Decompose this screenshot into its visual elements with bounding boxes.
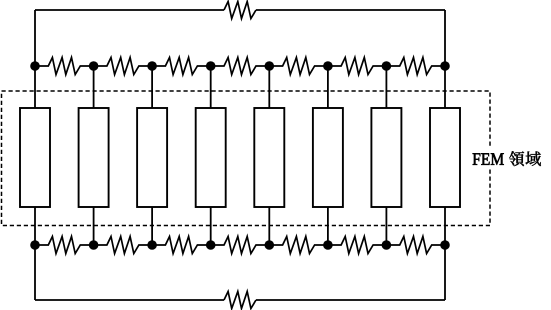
resistor lower row R-b2 (between node B2 and B3) — [94, 237, 153, 254]
wire top-left segment — [35, 9, 224, 11]
node B5 (junction dot, lower bus) — [265, 240, 275, 250]
resistor upper row R-a7 (between node A7 and A8) — [386, 58, 445, 75]
node A1 (junction dot, upper bus) — [30, 61, 40, 71]
wire element E7 down to node B7 — [385, 207, 387, 245]
node B1 (junction dot, lower bus) — [30, 240, 40, 250]
resistor upper row R-a6 (between node A6 and A7) — [328, 58, 387, 75]
FEM element (vertical resistor box) E3 — [137, 108, 167, 207]
node A6 (junction dot, upper bus) — [323, 61, 333, 71]
FEM region boundary (dashed box) — [2, 91, 491, 226]
wire bottom-right segment — [256, 299, 445, 301]
resistor upper row R-a4 (between node A4 and A5) — [211, 58, 270, 75]
wire node A6 down into FEM region — [327, 66, 329, 108]
wire element E3 down to node B3 — [151, 207, 153, 245]
node B6 (junction dot, lower bus) — [323, 240, 333, 250]
wire element E1 down to node B1 — [34, 207, 36, 245]
FEM element (vertical resistor box) E7 — [371, 108, 401, 207]
resistor upper row R-a3 (between node A3 and A4) — [152, 58, 211, 75]
node A5 (junction dot, upper bus) — [265, 61, 275, 71]
wire element E4 down to node B4 — [210, 207, 212, 245]
FEM element (vertical resistor box) E4 — [196, 108, 226, 207]
resistor upper row R-a2 (between node A2 and A3) — [94, 58, 153, 75]
resistor R-top (series resistor on top bus) — [224, 2, 256, 19]
node B3 (junction dot, lower bus) — [147, 240, 157, 250]
wire element E5 down to node B5 — [268, 207, 270, 245]
wire right drop from node B8 to bottom bus — [444, 245, 446, 300]
node A4 (junction dot, upper bus) — [206, 61, 216, 71]
wire top-right segment — [256, 9, 445, 11]
wire node A2 down into FEM region — [93, 66, 95, 108]
node B4 (junction dot, lower bus) — [206, 240, 216, 250]
label "FEM 領域" (FEM region) — [469, 147, 544, 169]
resistor lower row R-b5 (between node B5 and B6) — [269, 237, 328, 254]
FEM element (vertical resistor box) E5 — [254, 108, 284, 207]
wire element E8 down to node B8 — [444, 207, 446, 245]
node A2 (junction dot, upper bus) — [89, 61, 99, 71]
wire right riser from top bus to node A8 — [444, 10, 446, 66]
resistor R-bottom (series resistor on bottom bus) — [224, 292, 256, 309]
resistor lower row R-b7 (between node B7 and B8) — [386, 237, 445, 254]
wire bottom-left segment — [35, 299, 224, 301]
wire left riser from top bus to node A1 — [34, 10, 36, 66]
resistor lower row R-b3 (between node B3 and B4) — [152, 237, 211, 254]
resistor lower row R-b6 (between node B6 and B7) — [328, 237, 387, 254]
wire node A8 down into FEM region — [444, 66, 446, 108]
node B2 (junction dot, lower bus) — [89, 240, 99, 250]
node B7 (junction dot, lower bus) — [382, 240, 392, 250]
wire node A1 down into FEM region — [34, 66, 36, 108]
FEM element (vertical resistor box) E6 — [313, 108, 343, 207]
node A8 (junction dot, upper bus) — [440, 61, 450, 71]
wire node A3 down into FEM region — [151, 66, 153, 108]
wire element E2 down to node B2 — [93, 207, 95, 245]
wire element E6 down to node B6 — [327, 207, 329, 245]
FEM element (vertical resistor box) E8 — [430, 108, 460, 207]
resistor lower row R-b1 (between node B1 and B2) — [35, 237, 94, 254]
wire node A5 down into FEM region — [268, 66, 270, 108]
wire left drop from node B1 to bottom bus — [34, 245, 36, 300]
resistor lower row R-b4 (between node B4 and B5) — [211, 237, 270, 254]
resistor upper row R-a1 (between node A1 and A2) — [35, 58, 94, 75]
node A3 (junction dot, upper bus) — [147, 61, 157, 71]
node B8 (junction dot, lower bus) — [440, 240, 450, 250]
node A7 (junction dot, upper bus) — [382, 61, 392, 71]
FEM element (vertical resistor box) E1 — [20, 108, 50, 207]
resistor upper row R-a5 (between node A5 and A6) — [269, 58, 328, 75]
wire node A4 down into FEM region — [210, 66, 212, 108]
wire node A7 down into FEM region — [385, 66, 387, 108]
FEM element (vertical resistor box) E2 — [79, 108, 109, 207]
